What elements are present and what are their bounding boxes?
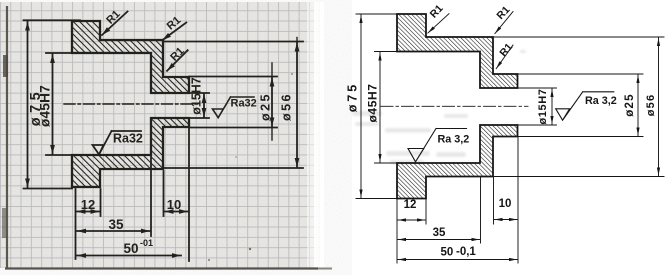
roughness Ra3,2 bore45 symbol	[408, 129, 467, 162]
roughness Ra3,2 bore15 symbol	[556, 92, 614, 120]
svg-text:-01: -01	[140, 238, 153, 248]
dim d56 line	[296, 43, 298, 168]
right drawing texts	[345, 2, 657, 258]
svg-text:50: 50	[123, 241, 138, 256]
svg-text:ø75: ø75	[345, 82, 359, 113]
svg-text:-0,1: -0,1	[456, 246, 476, 258]
part outline upper	[397, 14, 518, 88]
dim d15 line	[203, 94, 205, 117]
ext flange right	[100, 189, 102, 216]
dim d45 ext bottom	[46, 154, 72, 156]
center axis	[381, 105, 528, 107]
paper bottom edge	[5, 267, 318, 269]
dim d56 ext	[493, 36, 664, 38]
leader R1 neck	[167, 50, 188, 71]
paper sheet	[0, 2, 320, 268]
leader R1 body	[162, 23, 186, 41]
dim d25 line	[637, 75, 639, 136]
dim d75 ext top	[24, 19, 81, 21]
center axis	[64, 103, 200, 105]
dim 12 line	[398, 219, 425, 221]
svg-text:ø15H7: ø15H7	[537, 88, 549, 124]
ext bore face	[480, 177, 482, 244]
svg-text:50: 50	[441, 247, 454, 259]
svg-text:12: 12	[404, 199, 417, 211]
ext neck right	[188, 129, 190, 261]
svg-text:ø56: ø56	[645, 94, 657, 117]
ext bore face	[150, 157, 152, 236]
section upper half hatch	[397, 14, 518, 88]
dim 10 line	[165, 211, 189, 213]
bleedthrough smudges	[352, 50, 526, 164]
leader R1 flange	[428, 14, 449, 33]
svg-text:ø45H7: ø45H7	[366, 83, 380, 122]
leader R1 flange	[102, 12, 128, 36]
svg-text:ø45H7: ø45H7	[38, 85, 53, 127]
dim 10 line	[495, 219, 518, 221]
svg-text:R1: R1	[494, 4, 512, 22]
dim d15 ext	[189, 92, 209, 94]
paper specks	[249, 248, 251, 250]
svg-text:35: 35	[108, 217, 124, 232]
dim 35 line	[398, 239, 480, 241]
dim d75 line	[360, 15, 362, 198]
dim 50 line	[77, 255, 181, 257]
dim 35 line	[77, 230, 150, 232]
svg-text:Ra 3,2: Ra 3,2	[585, 95, 617, 107]
part outline lower	[72, 118, 189, 187]
dim 50 line	[398, 259, 517, 261]
dim d25 ext	[189, 76, 277, 78]
dim d25 ext	[518, 73, 644, 75]
dim d56 line	[658, 38, 660, 176]
dim d45 ext top	[46, 52, 72, 54]
dim d15 line	[551, 89, 553, 124]
roughness Ra32 bore45 symbol	[93, 131, 142, 155]
paper right fade	[307, 2, 316, 268]
svg-text:R1: R1	[497, 41, 515, 59]
svg-text:12: 12	[81, 197, 95, 212]
svg-text:ø15H7: ø15H7	[189, 77, 203, 115]
ext flange right	[425, 199, 427, 225]
left drawing texts	[28, 8, 293, 256]
svg-text:10: 10	[167, 197, 181, 212]
dim d75 ext	[356, 13, 397, 15]
leader R1 neck	[496, 45, 513, 69]
ext body right	[493, 177, 495, 225]
part outline lower	[397, 125, 518, 199]
dim d15 ext	[518, 87, 557, 89]
edge smudge top-left	[3, 55, 8, 77]
part outline upper	[72, 21, 189, 93]
paper left edge	[6, 6, 8, 268]
roughness Ra32 bore15 symbol	[213, 97, 255, 118]
section upper half hatch	[72, 21, 189, 93]
svg-text:35: 35	[433, 227, 446, 239]
ext left face	[396, 199, 398, 264]
dim 12 line	[77, 211, 100, 213]
dim d25 line	[271, 78, 273, 127]
section lower half hatch	[397, 125, 518, 199]
svg-text:ø25: ø25	[258, 92, 272, 121]
svg-text:Ra32: Ra32	[231, 98, 257, 110]
dim d75 ext bottom	[24, 188, 73, 190]
svg-text:ø56: ø56	[279, 92, 293, 121]
ext part end	[517, 137, 519, 264]
dim d45 ext	[375, 51, 398, 53]
svg-text:Ra 3,2: Ra 3,2	[438, 133, 470, 145]
leader R1 body	[495, 12, 513, 34]
svg-text:R1: R1	[428, 2, 446, 20]
dim d56 ext	[163, 41, 303, 43]
svg-text:Ra32: Ra32	[113, 132, 143, 146]
svg-text:ø25: ø25	[624, 93, 636, 116]
ext left face bottom	[75, 189, 77, 259]
dim d45 line	[52, 54, 54, 154]
section lower half hatch	[72, 118, 189, 187]
dim d45 line	[379, 53, 381, 163]
svg-text:10: 10	[499, 198, 512, 210]
dim d75 line	[27, 22, 29, 188]
ext body right	[163, 171, 165, 216]
